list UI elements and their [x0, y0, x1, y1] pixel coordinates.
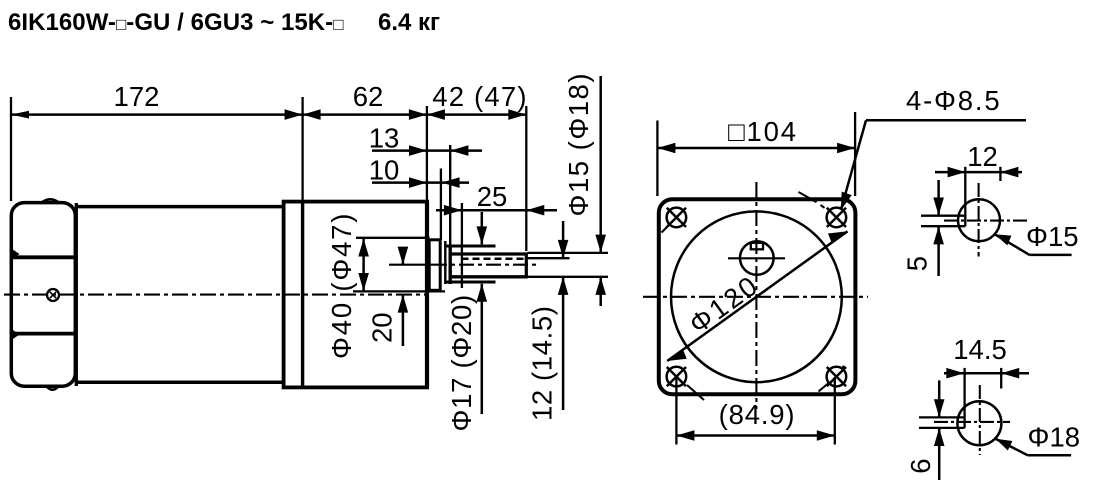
motor rear cover [11, 203, 75, 387]
dimension phi17 [477, 212, 488, 414]
svg-text:14.5: 14.5 [953, 334, 1007, 365]
gearhead housing [284, 202, 428, 388]
motor centerline [4, 294, 428, 296]
svg-text:Φ15: Φ15 [1026, 221, 1079, 252]
rear cover notch bottom [13, 330, 20, 339]
bolt hole BL [667, 367, 704, 400]
phi15 cross-section [921, 167, 1028, 257]
dimension phi40 [353, 238, 445, 292]
svg-text:12: 12 [967, 141, 998, 172]
svg-text:172: 172 [114, 81, 160, 112]
bolt hole TR [799, 192, 847, 227]
shaft end [525, 253, 528, 279]
dimension 42(47) [303, 109, 527, 120]
svg-text:25: 25 [477, 181, 508, 212]
rear screw bump top [41, 199, 60, 203]
shaft boss [429, 240, 440, 290]
dimension 62 [303, 109, 427, 120]
svg-text:20: 20 [367, 312, 398, 343]
svg-text:6IK160W-□-GU / 6GU3 ~ 15K-□: 6IK160W-□-GU / 6GU3 ~ 15K-□ [8, 9, 344, 36]
dimension phi120 diagonal [667, 231, 847, 361]
dimension square104 [657, 112, 855, 196]
svg-text:(84.9): (84.9) [719, 399, 796, 430]
dimension 10 [372, 177, 469, 188]
motor body [75, 203, 285, 386]
front shaft circle [728, 241, 785, 275]
phi18 cross-section [919, 368, 1010, 455]
leader phi15 [995, 234, 1072, 255]
svg-text:5: 5 [902, 256, 933, 271]
dimension 14.5 key [944, 368, 1029, 389]
shaft top [449, 252, 528, 255]
svg-text:Φ15 (Φ18): Φ15 (Φ18) [563, 72, 594, 217]
svg-text:Φ17 (Φ20): Φ17 (Φ20) [446, 294, 477, 431]
dimension 25 [436, 203, 557, 288]
bolt hole BR [819, 366, 847, 392]
title text [8, 9, 440, 36]
svg-text:4-Φ8.5: 4-Φ8.5 [906, 85, 1001, 116]
svg-text:Φ40 (Φ47): Φ40 (Φ47) [326, 212, 357, 359]
gear case circle phi120 [671, 211, 842, 382]
svg-text:42 (47): 42 (47) [432, 81, 528, 112]
extension lines top [11, 97, 526, 251]
shaft root top [445, 244, 496, 247]
svg-text:62: 62 [353, 81, 384, 112]
bolt hole TL [662, 208, 687, 233]
svg-text:13: 13 [369, 123, 400, 154]
dimension 20 offset [398, 247, 409, 346]
rear screw bump bottom [46, 386, 59, 390]
dimension 6 key [934, 380, 945, 480]
shaft end extension lines [528, 253, 609, 277]
svg-text:6.4 кг: 6.4 кг [378, 9, 440, 36]
rear cover notch top [13, 250, 20, 259]
shaft step line 10 [440, 169, 442, 241]
dimension 5 key [933, 180, 944, 276]
flange h centerline [643, 296, 868, 298]
svg-text:Φ18: Φ18 [1028, 422, 1081, 453]
keyway hidden line [462, 258, 527, 261]
shaft step line 13 [449, 145, 451, 284]
dimension 12 key [935, 167, 1022, 181]
dimension 84.9 [676, 377, 834, 445]
dim texts [114, 72, 1080, 474]
svg-text:6: 6 [905, 459, 936, 474]
dimension 12(14.5) keyway [558, 221, 569, 410]
shaft root bottom [445, 280, 496, 283]
shaft bottom [449, 275, 528, 278]
shaft centerline [389, 264, 539, 266]
leader phi18 [996, 439, 1072, 455]
svg-text:12 (14.5): 12 (14.5) [527, 306, 558, 421]
leader 4-phi8.5 [841, 120, 1026, 210]
svg-text:□104: □104 [728, 116, 798, 147]
svg-text:10: 10 [369, 155, 400, 186]
flange square [659, 199, 856, 394]
dimension phi15 [595, 76, 606, 306]
dimension 172 [11, 109, 303, 120]
rear center screw [47, 289, 59, 301]
dimension 13 [372, 145, 482, 156]
flange v centerline [755, 182, 757, 409]
shaft step line [444, 241, 446, 284]
